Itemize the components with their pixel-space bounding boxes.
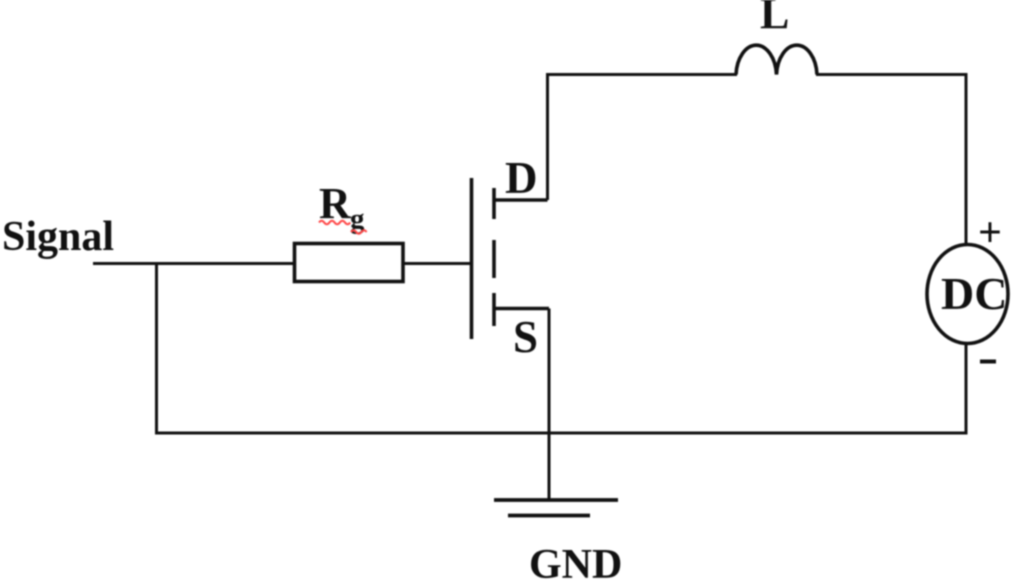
transistor Q1 channel dash 2 [492, 240, 496, 278]
wire drain up [546, 75, 549, 201]
wire left branch down [155, 264, 158, 435]
wire top left segment [546, 73, 737, 76]
svg-text:L: L [760, 0, 789, 38]
svg-text:+: + [978, 210, 1002, 256]
resistor Rg body [295, 244, 404, 282]
wire top right segment [816, 73, 968, 76]
spellcheck squiggle under R [319, 221, 350, 225]
svg-text:GND: GND [529, 542, 622, 581]
svg-text:DC: DC [941, 268, 1007, 319]
svg-text:Signal: Signal [2, 214, 114, 260]
wire signal lead [93, 262, 296, 265]
wire bottom [155, 432, 968, 435]
transistor Q1 drain lead [494, 198, 548, 202]
transistor Q1 channel dash 1 [492, 188, 496, 219]
wire resistor to gate [403, 262, 470, 265]
battery DC body [927, 245, 1008, 344]
inductor L [736, 45, 817, 74]
transistor Q1 source lead [494, 307, 549, 311]
spellcheck squiggle under g [351, 230, 367, 234]
ground bar 2 [508, 514, 590, 518]
wire right vertical upper [965, 75, 968, 247]
svg-text:R: R [319, 179, 352, 228]
wire source down to ground [548, 309, 551, 501]
transistor Q1 channel dash 3 [492, 293, 496, 326]
transistor Q1 gate bar [470, 178, 474, 339]
wire right vertical lower [965, 343, 968, 435]
battery minus sign [980, 360, 996, 364]
svg-text:S: S [513, 312, 538, 362]
svg-text:D: D [505, 153, 538, 203]
ground bar 1 [494, 498, 618, 502]
